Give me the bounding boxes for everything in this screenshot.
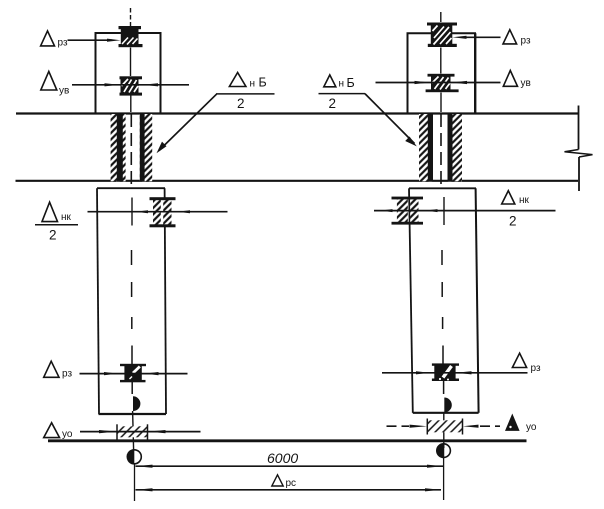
svg-text:рз: рз — [531, 363, 541, 374]
left lower column outline — [97, 187, 165, 189]
left column top section — [96, 33, 161, 114]
svg-text:ув: ув — [59, 86, 69, 97]
right joint axis dashed — [440, 114, 442, 190]
square S1 rz top-left — [119, 26, 143, 47]
right joint hatch strip B — [448, 114, 463, 181]
beam right end vertical — [578, 106, 580, 150]
square S4 rz bottom-left — [120, 364, 146, 383]
square S2 uv left — [120, 76, 143, 95]
label nk right — [502, 191, 515, 204]
label nB right: triangle — [324, 75, 336, 87]
svg-text:н: н — [250, 78, 256, 89]
semicircle base right — [444, 398, 452, 413]
right column axis dashes — [442, 250, 444, 394]
svg-text:6000: 6000 — [267, 450, 298, 466]
survey point circle left — [127, 450, 141, 464]
svg-text:2: 2 — [49, 228, 57, 243]
dimension line 6000 — [136, 465, 444, 467]
left column axis below uv square — [130, 96, 132, 113]
beam bottom line — [16, 180, 579, 182]
right column axis below uv square — [440, 93, 442, 113]
svg-text:2: 2 — [509, 214, 517, 229]
square S6 uv right — [426, 74, 459, 92]
svg-text:2: 2 — [329, 96, 337, 111]
leader arrow nB right — [365, 94, 415, 144]
svg-text:Б: Б — [347, 76, 355, 90]
square S3 nk left — [153, 200, 161, 226]
label triangle uv left — [41, 71, 57, 90]
semicircle base left — [133, 396, 140, 411]
svg-text:нк: нк — [519, 195, 530, 206]
label nB left: triangle — [229, 73, 246, 87]
svg-text:уо: уо — [526, 422, 537, 433]
label rc — [272, 475, 283, 486]
svg-text:уо: уо — [62, 429, 73, 440]
svg-text:рз: рз — [62, 369, 72, 380]
leader line rz top-right — [463, 36, 501, 38]
survey point circle right — [437, 444, 451, 458]
label uo left — [44, 423, 60, 438]
dim line uo left — [80, 431, 201, 433]
axis tick at nk left — [131, 198, 133, 226]
label triangle rz top-right — [503, 30, 517, 44]
svg-text:н: н — [339, 79, 345, 90]
square S8 rz bottom-right — [432, 363, 459, 381]
axis tick at nk right — [443, 197, 445, 225]
dim line nk left — [88, 211, 228, 213]
left joint hatch strip B — [140, 114, 152, 181]
square S7 nk right — [397, 199, 408, 223]
svg-text:2: 2 — [237, 96, 245, 111]
dim line rz bottom-left — [80, 373, 188, 375]
axis below circle left — [134, 464, 136, 501]
svg-text:нк: нк — [61, 212, 72, 223]
svg-text:рз: рз — [521, 36, 531, 47]
label triangle uv right — [503, 71, 517, 87]
right lower column outline — [409, 187, 476, 189]
beam top line — [16, 112, 578, 114]
uo band right — [427, 420, 462, 432]
extension line right — [443, 448, 445, 501]
dim line uo right — [387, 425, 410, 427]
label uo right (filled) — [505, 414, 520, 431]
axis through base right — [443, 413, 445, 449]
axis through base left — [133, 411, 134, 450]
label nB left fraction bar — [216, 93, 275, 95]
left joint axis dashed — [130, 114, 132, 190]
uo band left — [117, 426, 148, 437]
beam right break symbol — [565, 150, 593, 158]
label rz bottom-right — [512, 353, 526, 367]
label nk left — [42, 202, 58, 221]
dim line uv right — [376, 82, 501, 84]
svg-text:рс: рс — [286, 478, 297, 489]
label rz bottom-left — [44, 361, 59, 377]
right column axis above — [440, 12, 442, 22]
dim line rz bottom-right — [382, 372, 528, 374]
left column axis dashes — [131, 250, 134, 394]
dim line uv left — [72, 84, 189, 86]
label nB right fraction bar — [319, 93, 366, 95]
left column axis between squares — [130, 48, 132, 77]
right column top section — [408, 33, 476, 113]
right column axis between squares — [440, 48, 442, 74]
svg-text:рз: рз — [58, 37, 68, 48]
svg-text:ув: ув — [521, 78, 531, 89]
svg-text:Б: Б — [259, 76, 267, 90]
dimension line rc — [136, 489, 442, 491]
right joint hatch strip A — [419, 114, 433, 181]
dim line nk right — [374, 210, 556, 212]
leader line rz top-left — [68, 39, 113, 41]
left column axis above — [130, 8, 132, 26]
square S5 rz top-right — [427, 23, 457, 48]
label triangle rz top-left — [41, 31, 55, 46]
left joint hatch strip A — [111, 114, 126, 181]
leader arrow nB left — [159, 94, 217, 150]
ground line — [48, 439, 527, 442]
